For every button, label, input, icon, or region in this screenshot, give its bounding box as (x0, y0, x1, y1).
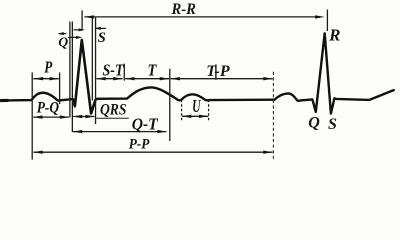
ECG baseline with P wave (first beat) (2, 93, 73, 101)
dimension QRS line (73, 116, 95, 118)
svg-text:S-T: S-T (103, 60, 125, 79)
dimension R-R line (84, 16, 317, 18)
svg-text:QRS: QRS (100, 102, 127, 119)
dimension S-T line (96, 78, 122, 80)
extension line QRS start / Q-T left (71, 22, 73, 133)
T-P left arrowhead (171, 77, 181, 80)
svg-text:S: S (98, 30, 106, 46)
R-R left arrowhead (84, 15, 94, 18)
P-P right arrowhead (263, 151, 273, 154)
tick through T-P label (215, 64, 217, 79)
dimension P-P line (34, 151, 273, 153)
S-T right arrowhead (113, 77, 123, 80)
extension line R peak (second beat) (326, 10, 328, 32)
extension line S end / QRS right / S-T left (95, 18, 97, 124)
svg-text:R-R: R-R (171, 1, 197, 18)
svg-text:Q: Q (58, 35, 68, 50)
small pointer arrow lower (to R apex) (68, 36, 79, 38)
small arrow above label Q pointing to Q onset (59, 33, 66, 35)
T right arrowhead (160, 77, 170, 80)
QRS left arrowhead (73, 115, 83, 118)
extension line R peak (first beat) (81, 10, 83, 30)
trace start stub (1, 99, 7, 102)
U left arrowhead (182, 115, 192, 118)
T left arrowhead (125, 77, 135, 80)
dimension P line (33, 78, 59, 80)
Q-T left arrowhead (73, 130, 83, 133)
T-P right arrowhead (263, 77, 273, 80)
tick S-T / T boundary (123, 64, 125, 81)
dimension P-Q line (33, 116, 69, 118)
dashed line U left (181, 100, 183, 121)
svg-text:Q-T: Q-T (132, 114, 159, 133)
dimension T line (125, 78, 169, 80)
P-P left arrowhead (33, 151, 43, 154)
svg-text:P: P (44, 58, 53, 77)
svg-text:R: R (328, 26, 340, 45)
U right arrowhead (199, 115, 209, 118)
small arrow above label S pointing to S end (96, 27, 106, 29)
QRS complex (first beat): Q dip, R spike, S dip (73, 40, 97, 114)
P-Q left arrowhead (33, 115, 43, 118)
dimension U line (182, 115, 208, 117)
P-Q right arrowhead (60, 115, 70, 118)
P right arrowhead (50, 77, 60, 80)
dimension Q-T line (73, 131, 167, 133)
svg-text:T-P: T-P (206, 63, 230, 80)
S-T left arrowhead (96, 77, 106, 80)
dimension T-P line (171, 78, 273, 80)
QRS right arrowhead (85, 115, 95, 118)
S-T segment, T wave, U wave (97, 87, 275, 100)
Q-T right arrowhead (157, 130, 167, 133)
svg-text:S: S (328, 116, 337, 133)
extension line S wave left (91, 18, 93, 101)
svg-text:P-P: P-P (129, 137, 150, 153)
svg-text:P-Q: P-Q (36, 100, 60, 117)
QRS label underline tail (96, 117, 129, 119)
svg-text:U: U (192, 96, 201, 116)
svg-text:Q: Q (308, 115, 320, 132)
P left arrowhead (34, 77, 44, 80)
dashed line U right (208, 100, 210, 121)
second beat: P wave, QRS complex, trailing upslope (274, 33, 393, 113)
small pointer arrow upper (to R line) (74, 29, 81, 31)
extension line Q onset (P-Q right) (69, 22, 71, 118)
svg-text:T: T (148, 61, 157, 80)
extension line T end (169, 69, 171, 141)
extension line P onset / P-P left (31, 72, 33, 159)
extension line P end (59, 72, 61, 104)
extension line second P onset / T-P right / P-P right (272, 72, 274, 160)
R-R right arrowhead (315, 15, 325, 18)
